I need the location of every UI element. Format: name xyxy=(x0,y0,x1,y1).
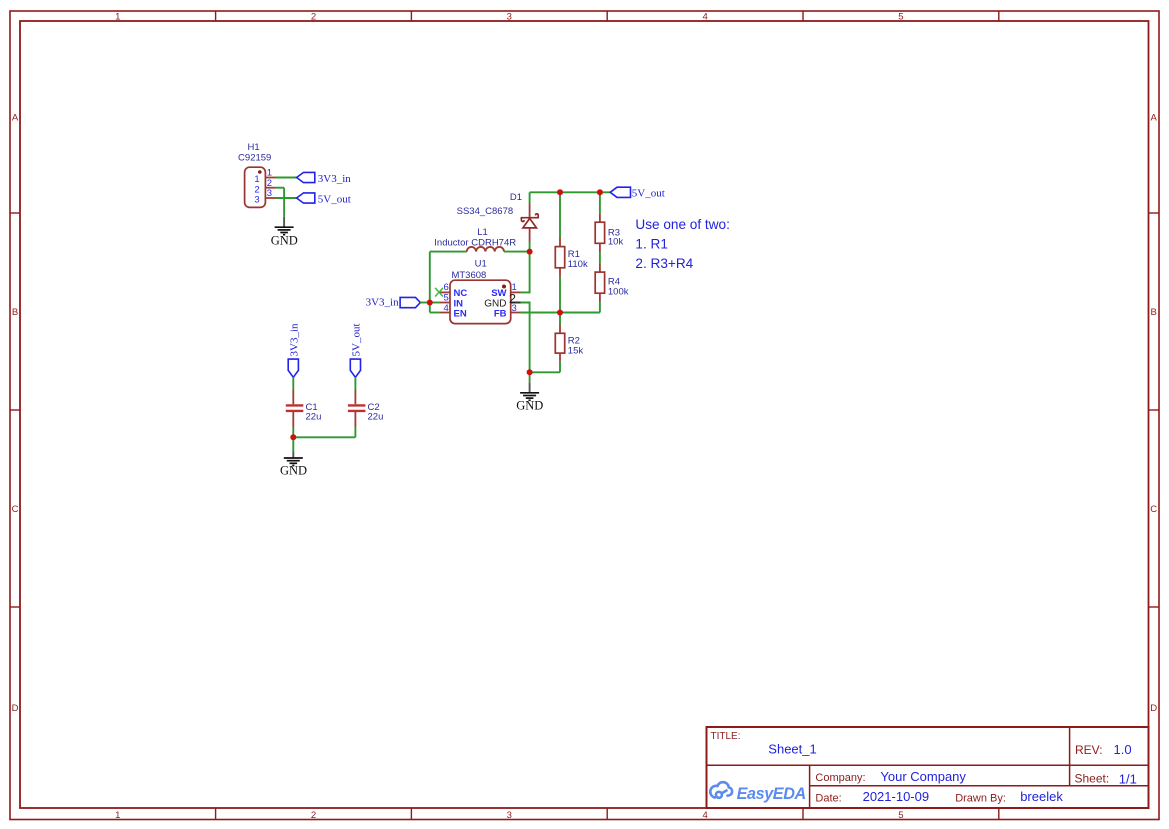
svg-text:Date:: Date: xyxy=(815,792,841,804)
svg-text:A: A xyxy=(1151,113,1158,124)
wire H1 pin3 to 5V_out flag xyxy=(275,197,297,199)
svg-text:5V_out: 5V_out xyxy=(632,188,665,200)
svg-text:3V3_in: 3V3_in xyxy=(366,296,400,308)
svg-text:MT3608: MT3608 xyxy=(451,270,486,281)
netflag 5V_out at rail xyxy=(610,187,630,197)
svg-text:B: B xyxy=(1151,307,1157,318)
ruler ticks right xyxy=(1149,213,1160,607)
junction node SW xyxy=(527,249,533,255)
ground GND at C1 C2 xyxy=(280,452,307,478)
wire 3V3 branch to L1 xyxy=(430,251,467,253)
resistor R2 xyxy=(555,325,564,362)
svg-text:C92159: C92159 xyxy=(238,152,271,163)
svg-text:2. R3+R4: 2. R3+R4 xyxy=(635,256,693,271)
netflag 5V_out vertical at C2 xyxy=(350,359,360,377)
junction node C1-C2-GND xyxy=(290,434,296,440)
wire 3V3_in flag to C1 xyxy=(292,377,294,389)
IC U1 pin 4 stub xyxy=(440,312,450,314)
svg-text:2: 2 xyxy=(311,12,316,23)
wire R4 to FB rail xyxy=(599,302,601,312)
svg-text:FB: FB xyxy=(494,308,507,319)
svg-text:1: 1 xyxy=(115,810,120,821)
wire D1 top to 5V rail xyxy=(529,192,531,203)
EasyEDA logo cloud icon xyxy=(710,782,732,798)
diode D1 schottky xyxy=(521,204,538,243)
wire GND pin down xyxy=(521,303,530,373)
wire FB rail xyxy=(521,312,600,314)
junction node rail R1 xyxy=(557,189,563,195)
netflag 3V3_in at H1 xyxy=(297,172,315,182)
wire 5V top rail xyxy=(530,191,611,193)
svg-text:5: 5 xyxy=(898,12,903,23)
no-connect X on pin 6 xyxy=(435,288,443,297)
svg-text:1. R1: 1. R1 xyxy=(635,237,668,252)
wire SW node up to D1 xyxy=(529,242,531,252)
svg-text:D: D xyxy=(1150,703,1157,714)
svg-text:3V3_in: 3V3_in xyxy=(288,323,300,357)
svg-text:C: C xyxy=(12,504,19,515)
junction node FB xyxy=(557,310,563,316)
svg-text:Sheet_1: Sheet_1 xyxy=(768,742,816,757)
wire R2 to ground rail xyxy=(559,362,561,372)
ground GND at U1 xyxy=(516,382,543,412)
svg-text:5: 5 xyxy=(444,292,449,303)
ruler letters left xyxy=(12,113,19,715)
wire 3V3_in flag to IN node xyxy=(420,302,430,304)
title block divider logo cell xyxy=(809,765,811,808)
wire vertical 3V3 branch xyxy=(429,252,431,313)
svg-text:100k: 100k xyxy=(608,286,629,297)
wire rail to R1 xyxy=(559,192,561,237)
junction node ground xyxy=(527,369,533,375)
wire to EN pin xyxy=(430,312,440,314)
svg-text:TITLE:: TITLE: xyxy=(711,731,741,742)
svg-text:SW: SW xyxy=(491,288,506,299)
ruler ticks bottom xyxy=(216,808,999,820)
wire C2 to C1 ground rail xyxy=(293,436,355,438)
svg-text:1: 1 xyxy=(115,12,120,23)
ruler numbers bottom xyxy=(115,810,903,821)
netflag 5V_out at H1 xyxy=(297,193,315,203)
ruler ticks top xyxy=(216,11,999,21)
svg-text:Inductor CDRH74R: Inductor CDRH74R xyxy=(434,238,516,249)
svg-text:15k: 15k xyxy=(568,345,584,356)
svg-text:22u: 22u xyxy=(306,412,322,423)
svg-text:2: 2 xyxy=(311,810,316,821)
IC U1 body xyxy=(450,280,511,323)
connector H1 body xyxy=(245,167,266,207)
svg-text:GND: GND xyxy=(280,464,307,478)
svg-text:5V_out: 5V_out xyxy=(318,193,351,205)
junction node IN xyxy=(427,300,433,306)
wire R3 to R4 xyxy=(599,252,601,263)
svg-text:D1: D1 xyxy=(510,192,522,203)
svg-text:4: 4 xyxy=(702,810,707,821)
svg-text:breelek: breelek xyxy=(1020,789,1063,804)
title block divider row2 right xyxy=(810,785,1149,787)
svg-text:D: D xyxy=(12,703,19,714)
wire rail to R3 xyxy=(599,192,601,213)
ruler letters right xyxy=(1150,113,1157,715)
svg-text:3: 3 xyxy=(512,303,517,314)
connector H1 pin-1 mark dot xyxy=(258,170,262,174)
wire 5V_out flag to C2 xyxy=(354,377,356,389)
svg-text:SS34_C8678: SS34_C8678 xyxy=(457,206,514,217)
wire SW pin to SW node xyxy=(521,252,530,293)
svg-text:1/1: 1/1 xyxy=(1119,772,1137,787)
svg-text:4: 4 xyxy=(444,303,449,314)
svg-text:U1: U1 xyxy=(475,258,487,269)
IC U1 pin 6 stub xyxy=(440,291,450,293)
svg-text:EN: EN xyxy=(454,308,467,319)
svg-text:Company:: Company: xyxy=(815,772,865,784)
svg-text:Use one of two:: Use one of two: xyxy=(635,217,729,232)
netflag 3V3_in at U1 xyxy=(400,297,420,307)
capacitor C2 xyxy=(348,390,366,428)
connector H1 pin 3 stub xyxy=(265,197,275,199)
wire H1 pin2 horizontal xyxy=(275,187,284,189)
IC U1 pin 1 stub xyxy=(511,291,521,293)
svg-text:3: 3 xyxy=(254,195,259,206)
wire C1 to ground junction xyxy=(292,427,294,437)
wire junction to ground xyxy=(292,437,294,451)
wire L1 to SW node xyxy=(504,251,530,253)
title block outline xyxy=(707,727,1149,808)
netflag 3V3_in vertical at C1 xyxy=(288,359,298,377)
ground GND at H1 xyxy=(271,217,298,248)
wire FB to R2 xyxy=(559,313,561,325)
svg-text:Drawn By:: Drawn By: xyxy=(955,792,1006,804)
ruler numbers top xyxy=(115,12,903,23)
svg-text:4: 4 xyxy=(702,12,707,23)
svg-text:B: B xyxy=(12,307,18,318)
wire R1 to FB rail xyxy=(559,277,561,313)
svg-text:Your Company: Your Company xyxy=(880,769,966,784)
svg-text:2021-10-09: 2021-10-09 xyxy=(863,789,930,804)
wire H1 pin1 to 3V3_in flag xyxy=(275,177,297,179)
wire ground rail horizontal xyxy=(530,371,560,373)
capacitor C1 xyxy=(286,390,304,428)
connector H1 pin 1 stub xyxy=(265,177,275,179)
title block divider rev cell xyxy=(1069,727,1071,786)
svg-text:GND: GND xyxy=(516,399,543,413)
svg-text:GND: GND xyxy=(271,234,298,248)
svg-text:C: C xyxy=(1150,504,1157,515)
svg-text:REV:: REV: xyxy=(1075,743,1103,757)
wire junction to main ground xyxy=(529,372,531,382)
ruler ticks left xyxy=(10,213,20,607)
wire H1 pin2 down to ground xyxy=(283,188,285,217)
wire C2 down xyxy=(354,427,356,437)
svg-text:110k: 110k xyxy=(568,259,588,270)
svg-text:L1: L1 xyxy=(477,227,488,238)
svg-text:Sheet:: Sheet: xyxy=(1075,772,1110,786)
IC U1 pin 5 stub xyxy=(440,302,450,304)
svg-text:10k: 10k xyxy=(608,237,624,248)
IC U1 pin 2 stub xyxy=(511,302,521,304)
resistor R1 xyxy=(555,238,564,277)
svg-text:1.0: 1.0 xyxy=(1114,742,1132,757)
svg-text:22u: 22u xyxy=(368,412,384,423)
inductor L1 xyxy=(467,247,504,252)
junction node rail R3 xyxy=(597,189,603,195)
svg-text:EasyEDA: EasyEDA xyxy=(737,785,806,803)
svg-text:5: 5 xyxy=(898,810,903,821)
IC U1 pin 3 stub xyxy=(511,312,521,314)
svg-text:3V3_in: 3V3_in xyxy=(318,173,352,185)
resistor R4 xyxy=(595,263,604,302)
IC U1 pin-1 mark dot xyxy=(502,285,506,289)
svg-text:3: 3 xyxy=(507,12,512,23)
svg-text:3: 3 xyxy=(507,810,512,821)
connector H1 pin 2 stub xyxy=(265,187,275,189)
svg-text:A: A xyxy=(12,113,19,124)
svg-text:5V_out: 5V_out xyxy=(350,324,362,357)
resistor R3 xyxy=(595,213,604,252)
title block divider row1 xyxy=(707,764,1149,766)
wire to IN pin xyxy=(430,302,440,304)
